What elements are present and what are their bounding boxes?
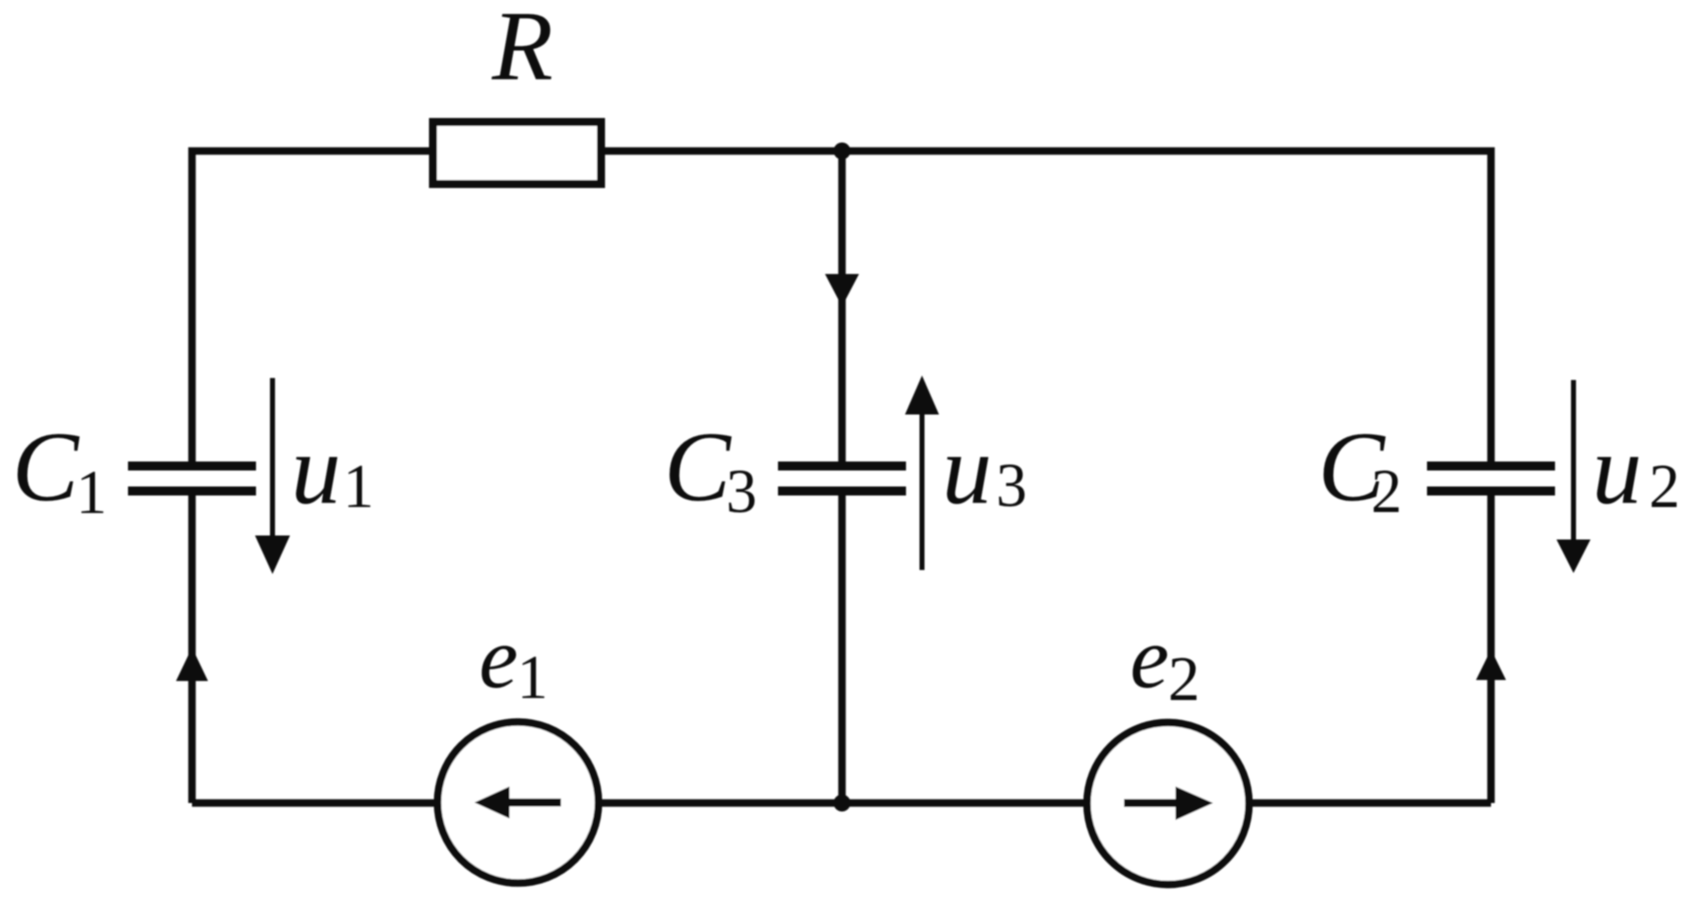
svg-text:R: R bbox=[491, 0, 553, 101]
svg-text:2: 2 bbox=[1371, 458, 1402, 526]
svg-text:u: u bbox=[291, 414, 341, 525]
svg-text:3: 3 bbox=[996, 452, 1027, 520]
svg-text:C: C bbox=[12, 411, 80, 522]
svg-text:e: e bbox=[1130, 610, 1169, 707]
svg-text:C: C bbox=[664, 411, 732, 522]
svg-text:2: 2 bbox=[1649, 453, 1680, 521]
svg-text:2: 2 bbox=[1168, 643, 1200, 714]
svg-text:3: 3 bbox=[726, 458, 757, 526]
svg-text:1: 1 bbox=[76, 459, 107, 527]
svg-text:1: 1 bbox=[343, 453, 374, 521]
svg-text:1: 1 bbox=[517, 644, 548, 712]
svg-text:e: e bbox=[479, 610, 518, 707]
svg-text:u: u bbox=[942, 414, 992, 525]
svg-text:u: u bbox=[1592, 414, 1642, 525]
